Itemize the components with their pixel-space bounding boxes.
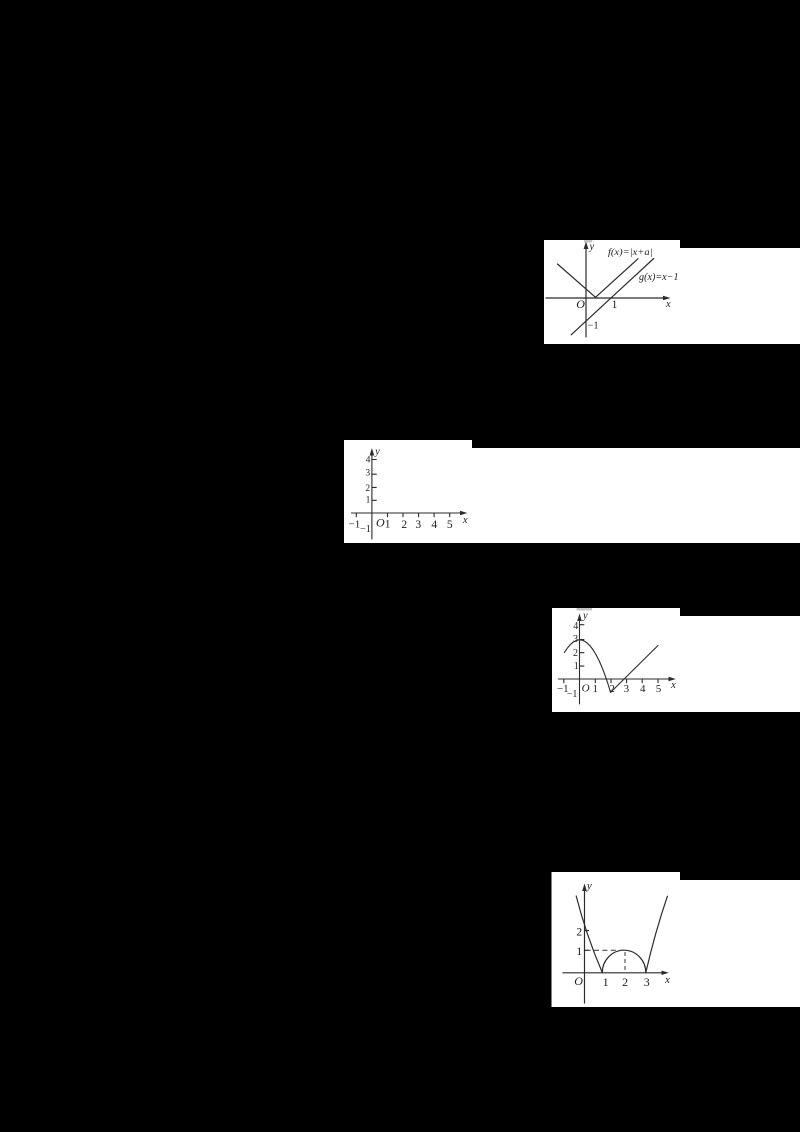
svg-text:1: 1 xyxy=(612,299,618,311)
fig4 y tick 2 xyxy=(585,930,589,932)
fig4 middle hump arc xyxy=(602,950,646,972)
fig3 y tick 2 xyxy=(580,652,584,654)
fig3 x-axis xyxy=(559,678,672,680)
fig3 x tick -1 xyxy=(563,679,565,683)
svg-text:2: 2 xyxy=(365,484,370,494)
svg-text:4: 4 xyxy=(640,683,646,695)
fig4 x-axis arrowhead xyxy=(662,971,669,975)
svg-text:3: 3 xyxy=(415,519,421,531)
svg-text:1: 1 xyxy=(574,661,579,672)
svg-text:1: 1 xyxy=(385,519,391,531)
svg-text:2: 2 xyxy=(622,975,628,989)
fig2 y tick 4 xyxy=(372,459,376,461)
svg-text:4: 4 xyxy=(573,621,578,632)
svg-text:1: 1 xyxy=(576,944,582,958)
fig3 x-axis arrowhead xyxy=(669,677,676,681)
svg-text:2: 2 xyxy=(576,927,582,939)
svg-text:x: x xyxy=(665,299,671,310)
fig4 left steep branch xyxy=(576,896,602,973)
fig3 x tick 4 xyxy=(641,679,643,683)
svg-text:−1: −1 xyxy=(349,519,361,531)
svg-text:y: y xyxy=(374,447,380,458)
fig4 dashed horizontal y=1 xyxy=(586,949,624,951)
svg-text:x: x xyxy=(670,680,676,691)
fig1 x-axis xyxy=(546,297,666,299)
fig4 right steep branch xyxy=(646,896,668,972)
figure 4 white box xyxy=(552,872,681,1007)
fig3 y tick 1 xyxy=(580,665,584,667)
fig4 y tick 1 xyxy=(585,949,589,951)
svg-text:3: 3 xyxy=(365,468,370,478)
svg-text:O: O xyxy=(574,974,583,988)
fig3 y-axis arrowhead xyxy=(577,614,582,622)
svg-text:3: 3 xyxy=(573,634,578,645)
fig2 y-axis xyxy=(371,452,373,539)
svg-text:2: 2 xyxy=(401,519,407,531)
svg-text:y: y xyxy=(586,880,592,892)
fig2 x tick 2 xyxy=(402,513,404,517)
svg-text:−1: −1 xyxy=(587,321,598,332)
svg-text:f(x)=|x+a|: f(x)=|x+a| xyxy=(608,247,653,258)
svg-text:2: 2 xyxy=(573,648,578,659)
figure 3 right white strip xyxy=(680,616,800,712)
fig1 y-axis xyxy=(585,246,587,337)
fig2 y tick 1 xyxy=(372,499,376,501)
fig3 gray smudge top of y-axis xyxy=(577,608,593,611)
svg-text:3: 3 xyxy=(624,683,630,695)
figure 3 white box xyxy=(552,608,680,712)
svg-text:1: 1 xyxy=(366,496,371,506)
fig2 x tick 5 xyxy=(449,513,451,517)
svg-text:x: x xyxy=(664,974,670,986)
fig1 line g xyxy=(571,259,654,335)
fig2 x tick -1 xyxy=(355,513,357,517)
svg-text:4: 4 xyxy=(431,519,437,531)
fig2 x-axis xyxy=(351,512,463,514)
svg-text:O: O xyxy=(582,683,590,695)
svg-text:O: O xyxy=(376,516,385,530)
fig3 parabola curve xyxy=(564,640,610,693)
fig3 y-axis xyxy=(579,618,581,704)
fig2 x tick 4 xyxy=(433,513,435,517)
figure 1 right white strip xyxy=(680,248,800,344)
fig3 y tick 4 xyxy=(580,624,584,626)
figure 2 white box xyxy=(344,440,472,543)
fig2 x-axis arrowhead xyxy=(460,511,467,515)
fig4 y-axis xyxy=(584,888,586,1003)
svg-text:−1: −1 xyxy=(360,524,371,535)
svg-text:y: y xyxy=(582,611,588,622)
figure 1 white box xyxy=(544,240,680,344)
fig2 x tick 3 xyxy=(418,513,420,517)
fig1 gray smudge top of y-axis xyxy=(584,240,592,243)
fig2 y tick 2 xyxy=(372,486,376,488)
fig2 y tick 3 xyxy=(372,473,376,475)
figure 4 right white strip xyxy=(680,880,800,1007)
fig4 y-axis arrowhead xyxy=(582,884,587,892)
svg-text:1: 1 xyxy=(603,975,609,989)
figure 2 right white strip xyxy=(472,448,800,543)
svg-text:1: 1 xyxy=(593,683,599,695)
fig1 curve f right branch xyxy=(596,259,639,298)
svg-text:5: 5 xyxy=(656,683,662,695)
svg-text:y: y xyxy=(589,242,595,253)
fig2 y-axis arrowhead xyxy=(370,448,375,456)
fig2 x tick 1 xyxy=(387,513,389,517)
fig4 dashed vertical x=2 xyxy=(624,952,626,972)
fig3 y tick 3 xyxy=(580,639,584,641)
svg-text:g(x)=x−1: g(x)=x−1 xyxy=(639,272,679,283)
svg-text:−1: −1 xyxy=(567,689,578,700)
svg-text:O: O xyxy=(576,297,585,311)
fig3 x tick 3 xyxy=(626,679,628,683)
fig3 rising line xyxy=(611,646,658,693)
fig1 curve f left branch xyxy=(558,264,596,297)
svg-text:3: 3 xyxy=(644,975,650,989)
svg-text:5: 5 xyxy=(447,519,453,531)
svg-text:x: x xyxy=(462,515,468,526)
svg-text:4: 4 xyxy=(366,455,371,465)
fig1 x-axis arrowhead xyxy=(663,296,671,301)
fig3 x tick 2 xyxy=(610,679,612,683)
fig1 y-axis arrowhead xyxy=(584,242,589,250)
fig3 x tick 5 xyxy=(657,679,659,683)
fig3 x tick 1 xyxy=(594,679,596,683)
svg-text:2: 2 xyxy=(609,683,615,695)
fig4 x-axis xyxy=(563,972,665,974)
